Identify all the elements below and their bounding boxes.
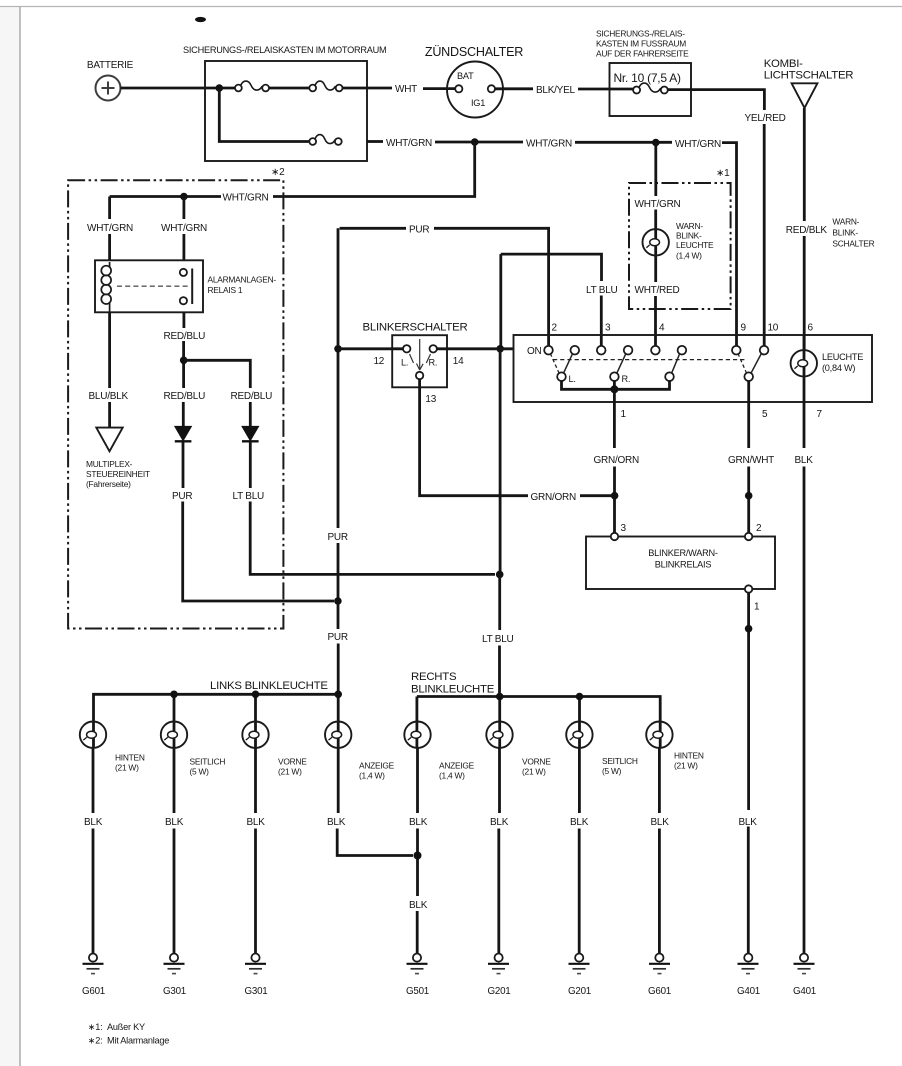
wire WHT/GRN main row	[367, 140, 383, 143]
svg-text:6: 6	[808, 323, 814, 334]
svg-text:9: 9	[741, 323, 747, 334]
node PUR joins diode feed	[334, 597, 342, 605]
svg-text:13: 13	[425, 394, 436, 405]
ground G401 second	[793, 954, 816, 998]
svg-text:LEUCHTE: LEUCHTE	[822, 352, 863, 362]
wire LT BLU drop to node 14	[499, 254, 502, 349]
svg-text:BLK: BLK	[165, 817, 184, 828]
fuse F3 bottom row	[309, 135, 341, 145]
lamp R-rear HINTEN	[646, 722, 704, 771]
node LT BLU / terminal 14 junction	[496, 345, 504, 353]
svg-text:G501: G501	[406, 986, 429, 997]
svg-text:2: 2	[756, 523, 762, 534]
svg-text:PUR: PUR	[328, 532, 348, 543]
svg-text:SICHERUNGS-/RELAIS-: SICHERUNGS-/RELAIS-	[596, 29, 685, 39]
svg-text:WHT/GRN: WHT/GRN	[526, 139, 572, 150]
svg-text:12: 12	[374, 356, 385, 367]
fuse Nr.10	[633, 83, 668, 93]
wire BLK column D joins E	[337, 748, 340, 813]
flasher relay BLINKER/WARN-BLINKRELAIS	[586, 523, 775, 613]
hazard switch lower contacts	[557, 372, 566, 381]
svg-text:∗1: ∗1	[716, 168, 730, 179]
svg-text:(1,4 W): (1,4 W)	[439, 771, 465, 781]
scan smudge mark	[195, 17, 206, 22]
svg-text:PUR: PUR	[409, 225, 429, 236]
hazard indicator lamp WARN-BLINK-LEUCHTE	[643, 221, 715, 261]
node junction WHT/GRN relay tap	[180, 193, 188, 201]
svg-text:SICHERUNGS-/RELAISKASTEN IM MO: SICHERUNGS-/RELAISKASTEN IM MOTORRAUM	[183, 45, 386, 55]
svg-text:LT BLU: LT BLU	[233, 491, 265, 502]
wire: branch down inside fuse box	[219, 88, 309, 142]
lamp L-rear HINTEN	[80, 722, 145, 773]
wire PUR main vertical	[337, 228, 340, 528]
svg-text:(21 W): (21 W)	[674, 761, 698, 771]
svg-text:BATTERIE: BATTERIE	[87, 60, 134, 71]
svg-text:WHT/GRN: WHT/GRN	[161, 223, 207, 234]
svg-text:ALARMANLAGEN-: ALARMANLAGEN-	[208, 275, 277, 285]
svg-text:BLK: BLK	[84, 817, 103, 828]
svg-text:WHT/GRN: WHT/GRN	[87, 223, 133, 234]
svg-text:L.: L.	[401, 358, 408, 368]
wire RED/BLK kombi down	[803, 108, 806, 221]
wire GRN/ORN from terminal 13	[420, 379, 528, 496]
svg-text:BLK: BLK	[409, 817, 428, 828]
svg-text:LT BLU: LT BLU	[482, 634, 514, 645]
svg-text:14: 14	[453, 356, 464, 367]
wire BLK column F	[498, 748, 501, 813]
svg-text:R.: R.	[429, 358, 438, 368]
svg-text:LT BLU: LT BLU	[586, 285, 618, 296]
svg-text:5: 5	[762, 409, 768, 420]
svg-text:(5 W): (5 W)	[602, 766, 622, 776]
svg-text:YEL/RED: YEL/RED	[745, 113, 786, 124]
svg-text:BLINKLEUCHTE: BLINKLEUCHTE	[411, 684, 495, 696]
ground G201	[488, 954, 511, 998]
svg-text:HINTEN: HINTEN	[115, 753, 145, 763]
lamp L-front VORNE	[242, 722, 307, 777]
node junction terminal 1	[610, 385, 618, 393]
svg-text:BLK: BLK	[570, 817, 589, 828]
svg-text:IG1: IG1	[471, 98, 485, 108]
dashed option box *1	[629, 168, 731, 309]
turn signal switch BLINKERSCHALTER	[363, 322, 468, 406]
svg-text:WHT/GRN: WHT/GRN	[675, 139, 721, 150]
svg-text:WHT/GRN: WHT/GRN	[386, 138, 432, 149]
wire WHT/GRN to relay contact	[182, 197, 185, 220]
svg-text:WHT/GRN: WHT/GRN	[223, 193, 269, 204]
wire PUR to terminal 12	[338, 347, 403, 350]
svg-text:(21 W): (21 W)	[522, 767, 546, 777]
svg-text:L.: L.	[569, 374, 576, 384]
svg-text:BLK: BLK	[651, 817, 670, 828]
svg-text:(0,84 W): (0,84 W)	[822, 363, 855, 373]
svg-text:G401: G401	[737, 986, 760, 997]
svg-text:MULTIPLEX-: MULTIPLEX-	[86, 459, 133, 469]
wire WHT/GRN into option box	[654, 143, 657, 197]
svg-text:(1,4 W): (1,4 W)	[359, 771, 385, 781]
hazard switch top contacts	[544, 346, 553, 355]
svg-text:G301: G301	[245, 986, 268, 997]
wire LT BLU below diode D2	[249, 441, 252, 488]
wire LT BLU upper horizontal	[501, 254, 602, 281]
wire between fuses	[269, 87, 309, 90]
svg-text:ZÜNDSCHALTER: ZÜNDSCHALTER	[425, 45, 523, 59]
svg-text:1: 1	[754, 602, 760, 613]
fuse/relay box footwell driver side	[596, 29, 691, 117]
svg-text:BLK: BLK	[409, 900, 428, 911]
node connector below flasher	[745, 625, 753, 633]
node RED/BLU branch junction	[180, 357, 188, 365]
multiplex control unit arrow	[86, 428, 150, 489]
svg-text:PUR: PUR	[172, 491, 192, 502]
wire terminal 14 to hazard ON	[437, 347, 513, 350]
wire PUR below diode D1	[182, 441, 185, 488]
svg-text:SEITLICH: SEITLICH	[190, 757, 226, 767]
node GRN/WHT connector dot	[745, 492, 753, 500]
svg-text:7: 7	[817, 409, 823, 420]
node PUR to blinkerschalter tap	[334, 345, 342, 353]
wire RED/BLU branch to right diode	[184, 360, 251, 388]
svg-text:BAT: BAT	[457, 71, 474, 81]
svg-text:VORNE: VORNE	[278, 757, 307, 767]
svg-text:WHT/RED: WHT/RED	[635, 285, 680, 296]
svg-text:(Fahrerseite): (Fahrerseite)	[86, 479, 131, 489]
wire BLK column A	[92, 748, 95, 813]
svg-text:(21 W): (21 W)	[115, 763, 139, 773]
svg-text:HINTEN: HINTEN	[674, 751, 704, 761]
svg-text:AUF DER FAHRERSEITE: AUF DER FAHRERSEITE	[596, 49, 689, 59]
svg-text:BLK: BLK	[490, 817, 509, 828]
wire BLK column G	[578, 748, 581, 813]
svg-text:∗2: Mit Alarmanlage: ∗2: Mit Alarmanlage	[88, 1036, 169, 1046]
wire drop from x475 junction to relay feed row	[273, 142, 475, 197]
wire terminal 5 down	[747, 380, 750, 448]
svg-text:2: 2	[552, 323, 558, 334]
lamp R-front VORNE	[486, 722, 551, 777]
wire YEL/RED down to terminal 10	[763, 124, 766, 347]
diode D2	[242, 426, 259, 441]
svg-text:BLK: BLK	[739, 817, 758, 828]
svg-text:Nr. 10 (7,5 A): Nr. 10 (7,5 A)	[614, 71, 681, 85]
svg-text:RED/BLU: RED/BLU	[231, 391, 273, 402]
switch blades dashed (off position)	[550, 353, 559, 373]
svg-text:RED/BLU: RED/BLU	[164, 331, 206, 342]
ground G301	[163, 954, 186, 998]
svg-text:ON: ON	[527, 346, 542, 357]
wire through pilot lamp	[803, 335, 806, 448]
svg-text:ANZEIGE: ANZEIGE	[439, 761, 475, 771]
ground G201 second	[568, 954, 591, 998]
svg-text:(1,4 W): (1,4 W)	[676, 251, 702, 261]
lamp R-indicator ANZEIGE	[404, 722, 474, 781]
ground G601 right	[648, 954, 671, 998]
svg-text:LINKS BLINKLEUCHTE: LINKS BLINKLEUCHTE	[210, 680, 328, 692]
svg-text:KOMBI-: KOMBI-	[764, 58, 803, 70]
svg-text:GRN/ORN: GRN/ORN	[531, 492, 577, 503]
lamp L-indicator ANZEIGE	[325, 722, 395, 781]
svg-text:RELAIS 1: RELAIS 1	[208, 285, 243, 295]
wire PUR top horizontal	[340, 227, 406, 230]
battery B1	[87, 60, 134, 101]
wire LT BLU vertical down	[499, 349, 502, 572]
svg-text:BLINK-: BLINK-	[832, 228, 858, 238]
svg-text:G201: G201	[568, 986, 591, 997]
svg-text:R.: R.	[622, 374, 631, 384]
svg-text:10: 10	[768, 323, 779, 334]
wire to YEL/RED corner	[668, 90, 765, 110]
svg-text:STEUEREINHEIT: STEUEREINHEIT	[86, 469, 150, 479]
svg-text:G301: G301	[163, 986, 186, 997]
svg-text:∗1: Außer KY: ∗1: Außer KY	[88, 1022, 145, 1032]
wire BLK/YEL	[495, 87, 533, 90]
wire BLK column B	[173, 748, 176, 813]
svg-text:BLK/YEL: BLK/YEL	[536, 85, 576, 96]
relay coil	[101, 262, 111, 312]
node junction WHT/GRN at x656	[652, 139, 660, 147]
svg-text:G201: G201	[488, 986, 511, 997]
svg-text:VORNE: VORNE	[522, 757, 551, 767]
svg-text:4: 4	[659, 323, 665, 334]
ground G601	[82, 954, 105, 998]
switch mechanical link dashed	[553, 359, 746, 361]
wire battery to fuse box	[121, 87, 236, 90]
svg-text:SEITLICH: SEITLICH	[602, 756, 638, 766]
wire RED/BLU from relay contact	[182, 312, 185, 328]
node junction WHT/GRN at x475	[471, 138, 479, 146]
svg-text:BLINKERSCHALTER: BLINKERSCHALTER	[363, 322, 468, 334]
relay contact	[117, 269, 192, 305]
lamp L-side SEITLICH	[161, 722, 226, 777]
svg-text:(5 W): (5 W)	[190, 767, 210, 777]
ground G301 second	[245, 954, 268, 998]
svg-text:BLINK-: BLINK-	[676, 231, 702, 241]
wire WHT to ignition switch	[343, 87, 393, 90]
svg-text:BLINKER/WARN-: BLINKER/WARN-	[648, 548, 718, 558]
fuse F2	[309, 81, 342, 91]
wire flasher output down	[747, 593, 750, 810]
svg-text:GRN/ORN: GRN/ORN	[594, 455, 640, 466]
svg-text:LICHTSCHALTER: LICHTSCHALTER	[764, 70, 854, 82]
node: junction battery feed	[216, 84, 224, 92]
svg-text:BLK: BLK	[795, 455, 814, 466]
svg-text:1: 1	[621, 409, 627, 420]
wire BLK column H	[658, 748, 661, 813]
ground G401	[737, 954, 760, 998]
svg-text:PUR: PUR	[328, 632, 348, 643]
diode D1	[175, 426, 192, 441]
svg-text:3: 3	[621, 523, 627, 534]
hazard switch box	[514, 335, 873, 402]
wire left lamp rail	[94, 694, 339, 748]
wire U link lower contacts	[562, 380, 670, 389]
svg-text:BLU/BLK: BLU/BLK	[89, 391, 129, 402]
svg-text:SCHALTER: SCHALTER	[832, 239, 874, 249]
switch blades solid	[564, 354, 573, 374]
svg-text:RED/BLK: RED/BLK	[786, 225, 828, 236]
relay K1 ALARMANLAGEN-RELAIS 1	[95, 260, 276, 312]
wire BLU/BLK to multiplex	[108, 312, 111, 388]
svg-text:WHT: WHT	[395, 84, 417, 95]
node GRN/ORN junction	[611, 492, 619, 500]
svg-text:WHT/GRN: WHT/GRN	[635, 199, 681, 210]
svg-text:G601: G601	[82, 986, 105, 997]
fuse F1	[235, 81, 269, 91]
svg-text:BLINKRELAIS: BLINKRELAIS	[655, 560, 712, 570]
svg-text:BLK: BLK	[247, 817, 266, 828]
wire WHT/GRN to relay coil	[108, 197, 111, 220]
svg-text:RED/BLU: RED/BLU	[164, 391, 206, 402]
svg-text:G401: G401	[793, 986, 816, 997]
page margin strip	[0, 7, 20, 1066]
node BLK junction D-E	[414, 852, 422, 860]
fuse/relay box engine compartment	[183, 45, 386, 161]
svg-text:KASTEN IM FUSSRAUM: KASTEN IM FUSSRAUM	[596, 39, 686, 49]
combination light switch KOMBI-LICHTSCHALTER	[764, 58, 854, 108]
svg-text:LEUCHTE: LEUCHTE	[676, 240, 714, 250]
svg-text:WARN-: WARN-	[832, 217, 859, 227]
svg-text:RECHTS: RECHTS	[411, 671, 457, 683]
dashed option box *2	[68, 167, 285, 629]
ground G501	[406, 954, 429, 998]
wire BLK column E	[416, 748, 419, 813]
label warn-blink-schalter	[832, 217, 874, 249]
wire right lamp rail	[417, 697, 660, 749]
svg-text:G601: G601	[648, 986, 671, 997]
node taps left rail	[170, 691, 178, 699]
svg-text:WARN-: WARN-	[676, 221, 703, 231]
svg-text:3: 3	[605, 323, 611, 334]
lamp R-side SEITLICH	[566, 722, 638, 777]
wire BLK column C	[254, 748, 257, 813]
svg-text:(21 W): (21 W)	[278, 767, 302, 777]
svg-text:GRN/WHT: GRN/WHT	[728, 455, 774, 466]
node LT BLU joins diode feed	[496, 571, 504, 579]
node taps right rail	[496, 693, 504, 701]
svg-text:BLK: BLK	[327, 817, 346, 828]
wire terminal 1 down	[613, 389, 616, 448]
svg-text:ANZEIGE: ANZEIGE	[359, 761, 395, 771]
wire from middle lower contact	[613, 380, 616, 389]
svg-text:∗2: ∗2	[271, 167, 285, 178]
pilot lamp LEUCHTE in hazard switch	[791, 350, 864, 376]
ignition switch ZUENDSCHALTER	[425, 45, 523, 118]
